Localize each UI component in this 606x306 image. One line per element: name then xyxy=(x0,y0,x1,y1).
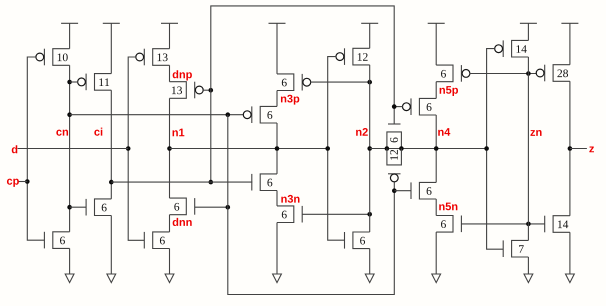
transistor M6l (NMOS, W=6) xyxy=(411,182,436,199)
wire M6c gate to cn xyxy=(195,206,228,208)
transistor M6m (NMOS, W=6) xyxy=(436,216,461,233)
vdd rail xyxy=(269,22,286,24)
wire vdd to M11 xyxy=(110,23,112,73)
wire M11 gate to cn xyxy=(70,81,78,83)
junction ci to loop xyxy=(209,180,214,185)
junction cp xyxy=(25,179,30,184)
net label n4 xyxy=(438,128,450,136)
vdd rail xyxy=(103,22,120,24)
wire M6j/M28 gates to zn xyxy=(470,73,537,75)
wire slave feedback out to n4 xyxy=(435,115,437,182)
wire net ci rail xyxy=(110,90,112,199)
net label n3n xyxy=(281,195,299,203)
net label dnn xyxy=(173,218,192,226)
wire net n2/n4 row xyxy=(370,148,487,150)
wire M6m source to ground xyxy=(435,232,437,274)
ground xyxy=(432,274,441,283)
transistor MTG-P (PMOS, W=12, vertical) xyxy=(387,149,402,182)
wire node dnp xyxy=(169,65,171,81)
wire net z rail xyxy=(569,81,571,215)
ground xyxy=(524,274,533,283)
ground xyxy=(107,274,116,283)
junction zn at gates xyxy=(526,71,531,76)
junction tgate left xyxy=(385,146,390,151)
net label dnp xyxy=(173,70,192,80)
junction z xyxy=(568,146,573,151)
wire vdd to M14p xyxy=(527,23,529,40)
wire cp gate net xyxy=(27,57,44,240)
wire vdd to M6e xyxy=(276,23,278,74)
transistor M6h (NMOS, W=6) xyxy=(277,206,302,223)
junction M6c gate xyxy=(226,205,231,210)
wire net n2 rail xyxy=(369,65,371,232)
transistor M28 (PMOS, W=28) xyxy=(536,65,570,82)
junction tristate out on n1 xyxy=(275,146,280,151)
wire cp input stub xyxy=(18,181,28,183)
wire net cn row xyxy=(70,114,244,116)
ground xyxy=(165,274,174,283)
transistor M6e (PMOS, W=6) xyxy=(277,74,311,91)
transistor M6b (NMOS, W=6) xyxy=(86,199,111,216)
junction tgate pgate to cn loop xyxy=(392,188,397,193)
junction cn drop xyxy=(226,112,231,117)
wire M6i source to ground xyxy=(369,249,371,274)
junction M6h gate xyxy=(367,212,372,217)
junction ci row start xyxy=(109,180,114,185)
wire net zn rail xyxy=(527,57,529,240)
junction cn row xyxy=(67,112,72,117)
junction n4 feedback xyxy=(434,146,439,151)
net label d xyxy=(12,145,18,153)
wire M6a source to ground xyxy=(69,248,71,274)
wire vdd to M6j xyxy=(435,23,437,65)
wire M6l gate to cn loop xyxy=(394,190,411,192)
vdd rail xyxy=(520,22,537,24)
junction n4 end xyxy=(484,146,489,151)
wire vdd to M13a xyxy=(169,23,171,48)
wire net cn loop xyxy=(228,115,394,295)
vdd rail xyxy=(361,22,378,24)
wire tristate output to n1 row xyxy=(276,123,278,174)
transistor M6i (NMOS, W=6) xyxy=(345,232,370,249)
net label n3p xyxy=(281,95,299,105)
net label n5n xyxy=(439,203,457,211)
wire d gate net xyxy=(128,57,144,240)
net label n1 xyxy=(173,129,185,137)
transistor M6d (NMOS, W=6) xyxy=(144,232,169,249)
junction zn at n gates xyxy=(526,222,531,227)
ground xyxy=(65,274,74,283)
wire vdd to M28 xyxy=(569,23,571,64)
transistor M14n (NMOS, W=14) xyxy=(545,216,570,233)
wire net ci row xyxy=(111,181,252,183)
net label ci xyxy=(94,128,102,136)
wire net ci loop xyxy=(211,6,394,182)
junction cn at M6b gate xyxy=(67,205,72,210)
wire node dnn xyxy=(169,215,171,232)
transistor M6f (PMOS, W=6) xyxy=(243,106,277,123)
net label z xyxy=(589,146,594,152)
junction d xyxy=(126,146,131,151)
wire d input xyxy=(18,148,129,150)
wire M6b source to ground xyxy=(110,216,112,275)
transistor M6k (PMOS, W=6) xyxy=(403,98,437,115)
wire node n3n xyxy=(276,191,278,206)
wire net cn rail xyxy=(69,65,71,232)
net label zn xyxy=(530,130,541,136)
wire M6h gate to n2 xyxy=(302,213,370,215)
wire net n1 rail xyxy=(169,98,171,198)
transistor M6g (NMOS, W=6) xyxy=(252,174,277,191)
wire M7 source to ground xyxy=(527,257,529,274)
transistor M6c (NMOS, W=6) xyxy=(170,198,195,215)
junction cn at M11 gate xyxy=(67,80,72,85)
transistor M13b (PMOS, W=13) xyxy=(170,82,204,99)
vdd rail xyxy=(61,22,78,24)
ground xyxy=(365,274,374,283)
wire M6e gate to n2 xyxy=(310,81,369,83)
junction M6k gate xyxy=(392,104,397,109)
transistor M14p (PMOS, W=14) xyxy=(495,40,529,57)
wire z output stub xyxy=(570,148,587,150)
transistor MTG-N (NMOS, W=6, vertical) xyxy=(387,124,402,149)
net label n5p xyxy=(440,86,458,96)
junction M13b gate xyxy=(209,88,214,93)
net label n2 xyxy=(356,128,368,136)
transistor M6a (NMOS, W=6) xyxy=(44,232,69,249)
wire node n5p xyxy=(435,82,437,99)
ground xyxy=(273,274,282,283)
transistor M10 (PMOS, W=10) xyxy=(36,49,70,66)
transistor M11 (PMOS, W=11) xyxy=(78,74,112,91)
ground xyxy=(566,274,575,283)
vdd rail xyxy=(161,22,178,24)
transistor M12 (PMOS, W=12) xyxy=(336,48,370,65)
wire n1 to M12/M6i gates xyxy=(328,57,345,241)
wire M6h source to ground xyxy=(276,223,278,275)
junction n1 xyxy=(167,146,172,151)
junction inverter input on n1 xyxy=(325,146,330,151)
junction M6e gate xyxy=(367,80,372,85)
wire M6m/M14n gates to zn xyxy=(461,223,544,225)
wire vdd to M12 xyxy=(369,23,371,48)
wire M14n source to ground xyxy=(569,232,571,274)
wire node n3p xyxy=(276,91,278,107)
vdd rail xyxy=(428,22,445,24)
wire M13b gate to box net xyxy=(203,89,211,91)
junction n2 xyxy=(367,146,372,151)
wire M6k gate to ci loop xyxy=(394,106,403,108)
transistor M7 (NMOS, W=7) xyxy=(503,240,528,257)
wire n4 to M14p/M7 gates xyxy=(487,49,504,250)
wire net n1 row xyxy=(170,148,328,150)
junction tgate right xyxy=(399,146,404,151)
wire vdd to M10 xyxy=(69,23,71,48)
vdd rail xyxy=(561,22,578,24)
wire M6b gate to cn xyxy=(70,206,87,208)
wire node n5n xyxy=(435,199,437,216)
net label cn xyxy=(56,130,68,136)
wire M6d source to ground xyxy=(169,249,171,275)
transistor M6j (PMOS, W=6) xyxy=(436,65,470,82)
transistor M13a (PMOS, W=13) xyxy=(136,49,170,66)
net label cp xyxy=(7,179,19,187)
